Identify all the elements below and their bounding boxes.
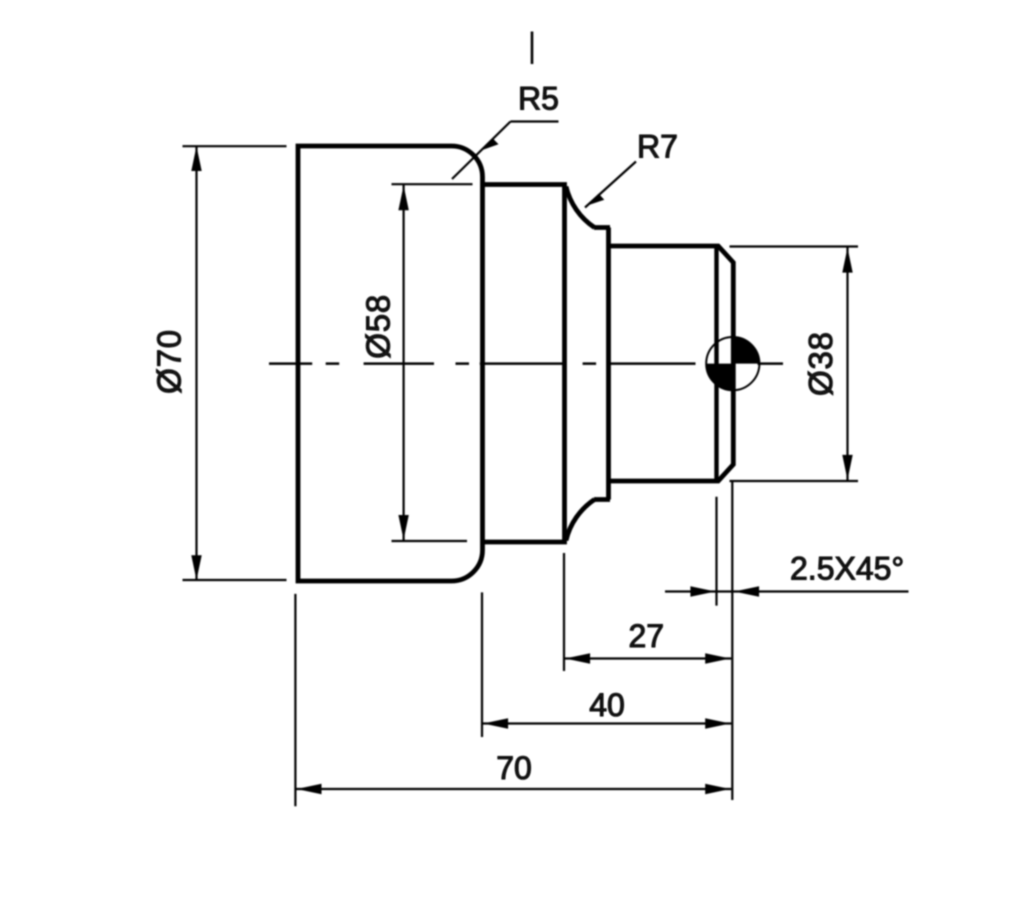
dim phi70 arrow top	[191, 146, 201, 171]
dim chamfer arrow left	[690, 586, 715, 596]
leader R5 arrow	[481, 138, 499, 150]
leader R5 shoulder	[511, 120, 559, 122]
dim 70 extension left	[294, 594, 296, 806]
collar ledge and step face	[594, 228, 610, 500]
dim phi70 extension bottom	[183, 579, 287, 581]
centerline	[269, 362, 783, 365]
svg-text:70: 70	[496, 750, 532, 786]
leader R7 arrow	[587, 194, 605, 206]
dim phi70 arrow bottom	[191, 555, 201, 580]
svg-text:Ø58: Ø58	[360, 294, 397, 359]
dim phi58 arrow top	[398, 186, 408, 211]
center drill circle	[706, 337, 759, 390]
body phi58 outline	[484, 185, 565, 543]
dim phi38 extension bottom	[730, 480, 859, 482]
center drill filled quadrant NE	[733, 337, 760, 364]
svg-text:2.5X45°: 2.5X45°	[790, 551, 904, 587]
dim phi58 arrow bottom	[398, 515, 408, 540]
dim 70 arrow left	[297, 784, 322, 794]
leader R7 diagonal	[585, 162, 636, 208]
fillet R7 bottom	[566, 500, 595, 541]
svg-text:Ø38: Ø38	[802, 331, 839, 396]
dim 70 arrow right	[705, 784, 730, 794]
dim phi58 extension top	[392, 183, 473, 185]
top tick mark	[531, 32, 534, 65]
dim phi38 arrow top	[842, 248, 852, 273]
dim chamfer extension inner	[715, 497, 717, 606]
dim phi38 arrow bottom	[842, 455, 852, 480]
center drill filled quadrant SW	[706, 364, 733, 391]
svg-text:R5: R5	[518, 81, 559, 117]
dim chamfer leader line	[665, 590, 909, 592]
dim 40 arrow left	[483, 718, 508, 728]
dim 40 line	[482, 722, 731, 724]
body phi70 outline	[298, 146, 483, 581]
body phi38 outline with chamfer	[609, 246, 734, 481]
svg-text:Ø70: Ø70	[151, 329, 188, 394]
dim phi38 extension top	[730, 245, 859, 247]
dim 27 line	[564, 657, 731, 659]
dim phi58 extension bottom	[392, 540, 468, 542]
fillet R7 top	[566, 187, 595, 228]
svg-text:R7: R7	[637, 129, 678, 165]
dim 27 arrow left	[565, 653, 590, 663]
svg-text:27: 27	[629, 618, 665, 654]
dim chamfer arrow right	[734, 586, 759, 596]
dim phi38 line	[846, 247, 848, 482]
shared right extension line	[731, 481, 733, 800]
dim phi70 extension top	[183, 145, 287, 147]
dim 40 arrow right	[705, 718, 730, 728]
leader R5 diagonal	[452, 122, 511, 180]
dim 27 extension left	[563, 553, 565, 671]
dim 27 arrow right	[705, 653, 730, 663]
dim phi70 line	[195, 146, 197, 580]
chamfer edge line	[714, 246, 718, 481]
dim phi58 line	[403, 184, 405, 541]
dim 40 extension left	[481, 592, 483, 737]
svg-text:40: 40	[589, 687, 625, 723]
dim 70 line	[295, 788, 731, 790]
